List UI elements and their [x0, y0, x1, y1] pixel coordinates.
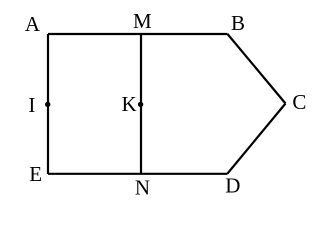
svg-text:E: E [29, 162, 42, 186]
svg-text:D: D [225, 174, 240, 198]
svg-text:K: K [121, 92, 136, 116]
svg-text:N: N [135, 176, 150, 200]
wire M-N (middle vertical) [140, 34, 142, 174]
svg-text:B: B [231, 11, 245, 35]
svg-text:I: I [28, 93, 35, 117]
point I (dot on left side) [45, 102, 50, 107]
wire C-D (lower right diagonal) [228, 104, 286, 174]
wire B-C (upper right diagonal) [228, 34, 286, 104]
svg-text:C: C [292, 90, 306, 114]
wire A-B (top side) [48, 33, 228, 35]
svg-text:A: A [25, 12, 41, 36]
point K (dot on middle segment) [138, 102, 143, 107]
svg-text:M: M [133, 9, 152, 33]
wire D-E (bottom side) [48, 173, 228, 175]
wire E-A (left side) [47, 34, 49, 174]
